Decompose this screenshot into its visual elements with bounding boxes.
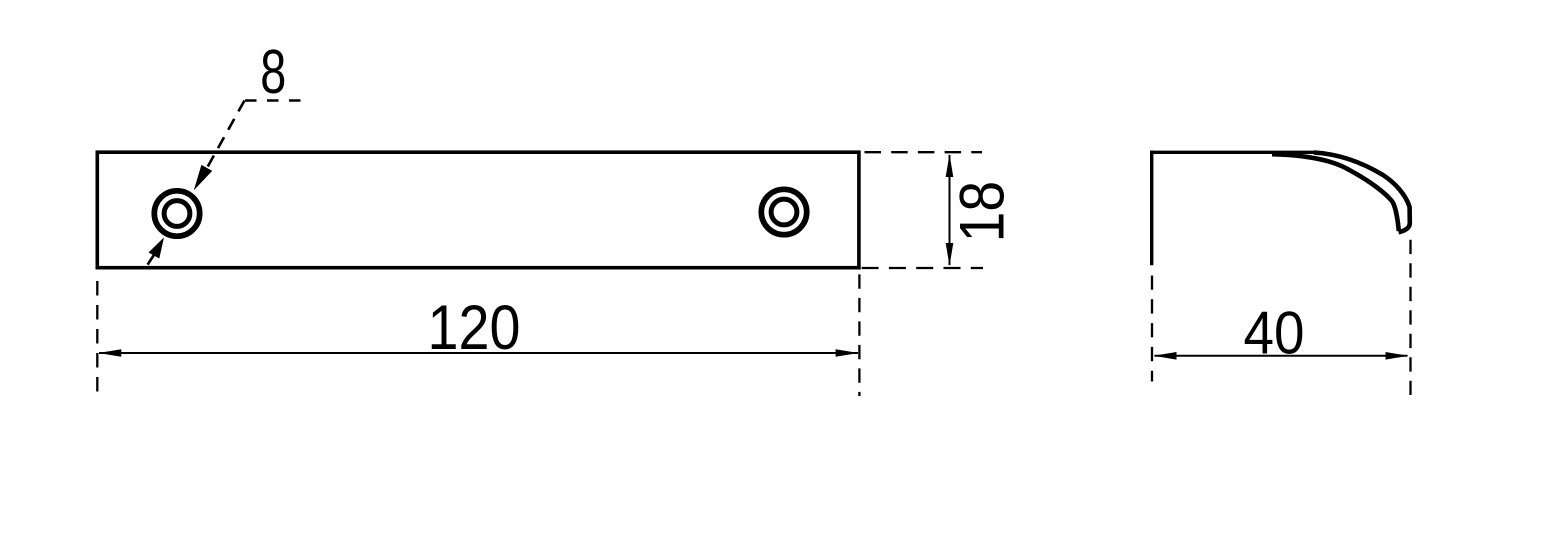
dim 120: left arrowhead bbox=[98, 349, 121, 357]
side view: outer curve of lip bbox=[1314, 153, 1410, 233]
side view: top edge bbox=[1150, 151, 1316, 154]
dim 18: bottom dashed extension bbox=[862, 267, 983, 269]
svg-text:18: 18 bbox=[947, 181, 1017, 243]
hole left: outer circle bbox=[154, 191, 199, 236]
dim 120: right arrowhead bbox=[836, 349, 859, 357]
dim 18: bottom arrowhead bbox=[946, 243, 954, 266]
dim 120: left extension dashed line bbox=[96, 281, 98, 392]
dim 40: dimension line bbox=[1155, 355, 1408, 357]
leader arrow lower (points to hole edge) bbox=[149, 237, 165, 258]
side view: inner curve of lip bbox=[1272, 154, 1399, 231]
dim 18: top dashed extension bbox=[865, 151, 983, 153]
dim 18: top arrowhead bbox=[946, 154, 954, 177]
dim 120: dimension line bbox=[99, 352, 858, 354]
front view: handle face plate outline 120x18 bbox=[97, 152, 859, 268]
leader arrow upper (points to hole edge) bbox=[194, 165, 212, 191]
dim 120: right extension dashed line bbox=[858, 274, 860, 396]
dim 40: right extension dashed line bbox=[1409, 240, 1411, 395]
dim 40: left arrowhead bbox=[1154, 352, 1177, 360]
leader lower tail bbox=[148, 255, 154, 265]
leader dashed angled line bbox=[205, 101, 245, 172]
svg-text:120: 120 bbox=[428, 293, 521, 363]
side view: left vertical edge bbox=[1150, 151, 1153, 266]
hole left: inner circle bbox=[164, 201, 190, 227]
leader shoulder dashed line bbox=[245, 99, 302, 102]
hole right: inner circle bbox=[771, 199, 797, 225]
dim 40: left extension dashed line bbox=[1151, 276, 1153, 382]
dim 40: right arrowhead bbox=[1386, 352, 1409, 360]
svg-text:8: 8 bbox=[260, 38, 286, 107]
dim 18: vertical dimension line bbox=[949, 155, 951, 265]
hole right: outer circle bbox=[761, 189, 806, 234]
svg-text:40: 40 bbox=[1244, 299, 1305, 366]
